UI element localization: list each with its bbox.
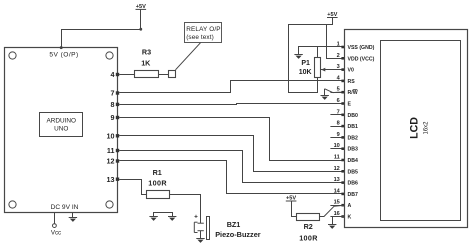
LCD pin 1 VSS (GND): [330, 46, 344, 48]
mounting hole top-left: [9, 52, 16, 59]
svg-text:6: 6: [337, 98, 340, 104]
ground (left of pair): [149, 217, 157, 221]
svg-text:A: A: [348, 203, 352, 209]
svg-text:BZ1: BZ1: [227, 220, 241, 229]
wire Arduino pin10 to LCD DB5: [119, 136, 344, 172]
svg-text:Piezo-Buzzer: Piezo-Buzzer: [215, 230, 261, 239]
svg-text:10: 10: [334, 143, 340, 149]
LCD module outline: [345, 30, 468, 228]
svg-text:1K: 1K: [141, 58, 151, 67]
svg-text:5: 5: [337, 87, 340, 93]
LCD pin 4 RS: [330, 80, 344, 82]
svg-text:2: 2: [337, 53, 340, 59]
LCD pin 6 E: [330, 103, 344, 105]
resistor R3: [135, 71, 159, 78]
svg-text:DC 9V IN: DC 9V IN: [51, 204, 79, 211]
svg-text:K: K: [348, 215, 352, 221]
potentiometer P1 body: [315, 58, 321, 78]
svg-text:11: 11: [334, 155, 340, 161]
svg-text:12: 12: [107, 157, 115, 166]
Arduino pin 9 terminal: [116, 116, 119, 119]
LCD screen inner rectangle: [381, 41, 461, 221]
svg-text:16x2: 16x2: [424, 121, 430, 135]
svg-text:11: 11: [107, 146, 115, 155]
Vcc terminal: [54, 212, 56, 223]
svg-text:+5V: +5V: [286, 195, 296, 201]
wire VSS to ground: [299, 47, 345, 56]
svg-text:+5V: +5V: [136, 4, 146, 10]
svg-text:DB1: DB1: [348, 124, 358, 130]
wire pot wiper to LCD V0: [321, 69, 344, 71]
svg-text:VSS (GND): VSS (GND): [348, 45, 375, 51]
svg-text:9: 9: [337, 132, 340, 138]
+5V supply arrow (top left): [136, 4, 147, 10]
LCD pin 16 K: [330, 216, 344, 218]
svg-text:+5V: +5V: [327, 12, 337, 18]
wire R1 to buzzer: [170, 195, 201, 224]
svg-text:15: 15: [334, 200, 340, 206]
Arduino pin 10 terminal: [116, 134, 119, 137]
+5V supply arrow (LCD): [327, 12, 338, 18]
ground at buzzer: [196, 239, 204, 243]
svg-text:3: 3: [337, 64, 340, 70]
svg-text:DB6: DB6: [348, 181, 358, 187]
+5V supply arrow (R2): [286, 195, 297, 201]
wire Arduino pin9 to LCD DB4: [119, 118, 344, 161]
LCD pin 8 DB1: [330, 126, 344, 128]
LCD pin 9 DB2: [330, 137, 344, 139]
buzzer piezo disc: [207, 217, 210, 240]
wiper arrowhead: [321, 68, 325, 72]
wire Arduino pin11 to LCD DB6: [119, 151, 344, 183]
LCD pin 2 VDD (VCC): [330, 58, 344, 60]
Arduino pin 7 terminal: [116, 91, 119, 94]
wire Arduino pin7 to LCD RS: [119, 81, 344, 93]
svg-text:R1: R1: [153, 168, 162, 177]
svg-text:V0: V0: [348, 68, 354, 74]
mounting hole bottom-right: [106, 201, 113, 208]
wire LCD R/W link: [333, 91, 338, 93]
Arduino pin 12 terminal: [116, 159, 119, 162]
Arduino pin 13 terminal: [116, 178, 119, 181]
svg-text:LCD: LCD: [409, 117, 421, 139]
ground (right of pair): [168, 217, 176, 221]
wire DC-in ground stem: [72, 212, 74, 217]
svg-text:ARDUINO: ARDUINO: [46, 118, 75, 125]
mounting hole bottom-left: [9, 201, 16, 208]
wire pot bottom loop: [288, 77, 317, 92]
svg-text:UNO: UNO: [54, 126, 68, 133]
svg-text:7: 7: [337, 109, 340, 115]
LCD pin 11 DB4: [330, 160, 344, 162]
resistor R2: [297, 214, 320, 221]
svg-text:8: 8: [111, 100, 115, 109]
wire pin13 to R1: [119, 180, 146, 195]
svg-text:100R: 100R: [148, 179, 167, 188]
svg-text:100R: 100R: [299, 234, 318, 243]
svg-text:10: 10: [107, 131, 115, 140]
svg-text:DB2: DB2: [348, 135, 358, 141]
wire VDD drop: [327, 25, 345, 59]
wire +5V to R2: [292, 201, 297, 217]
svg-text:DB3: DB3: [348, 147, 358, 153]
svg-text:12: 12: [334, 166, 340, 172]
wire pot top to VSS net: [317, 47, 319, 58]
ground at LCD VSS: [294, 55, 302, 59]
svg-text:DB5: DB5: [348, 169, 358, 175]
LCD pin 13 DB6: [330, 182, 344, 184]
svg-text:DB7: DB7: [348, 192, 358, 198]
relay callout box RELAY O/P: [185, 23, 222, 43]
ground at LCD R/W: [321, 96, 329, 100]
Arduino pin 8 terminal: [116, 103, 119, 106]
wire leader to relay callout: [176, 42, 202, 70]
svg-text:R2: R2: [304, 222, 313, 231]
wire pin4 to R3: [119, 74, 135, 76]
svg-text:13: 13: [334, 177, 340, 183]
floating ground pair bracket: [154, 213, 173, 217]
svg-text:E: E: [348, 102, 352, 108]
svg-text:7: 7: [111, 89, 115, 98]
svg-text:RELAY O/P: RELAY O/P: [186, 26, 221, 33]
mounting hole top-right: [106, 52, 113, 59]
svg-text:RS: RS: [348, 79, 356, 85]
svg-text:8: 8: [337, 121, 340, 127]
ground at DC 9V IN: [69, 218, 77, 222]
ARDUINO UNO inner box: [40, 113, 83, 137]
resistor R1: [147, 191, 170, 199]
svg-text:DB4: DB4: [348, 158, 358, 164]
wire R3 to relay terminal: [159, 74, 169, 76]
svg-text:1: 1: [337, 42, 340, 48]
wire Arduino pin8 to LCD E: [119, 104, 344, 105]
wire R2 to LCD A: [319, 205, 344, 216]
LCD pin 3 V0: [330, 69, 344, 71]
wire Arduino pin12 to LCD DB7: [119, 161, 344, 194]
Arduino pin 11 terminal: [116, 149, 119, 152]
LCD pin 12 DB5: [330, 171, 344, 173]
relay output terminal square: [169, 71, 176, 78]
buzzer BZ1 element: [194, 222, 204, 232]
wire LCD K to ground: [333, 217, 345, 225]
wire buzzer to ground: [200, 231, 202, 239]
svg-text:10K: 10K: [299, 69, 312, 76]
wire 5V O/P to +5V arrow: [62, 9, 141, 47]
R/W switch blade: [325, 89, 333, 93]
Arduino pin 4 terminal: [116, 73, 119, 76]
LCD pin 15 A: [330, 205, 344, 207]
+5V rail wire to VDD: [289, 18, 333, 94]
Arduino board outline: [5, 48, 118, 213]
svg-text:R3: R3: [142, 48, 151, 57]
svg-text:13: 13: [107, 175, 115, 184]
svg-text:(see text): (see text): [186, 34, 214, 41]
svg-text:14: 14: [334, 188, 341, 194]
ground at LCD K: [328, 225, 336, 229]
junction dot on Arduino 5V output: [60, 46, 63, 49]
svg-text:+: +: [194, 214, 198, 221]
LCD pin 5 R/W: [330, 92, 344, 94]
svg-text:P1: P1: [301, 60, 310, 67]
LCD pin 10 DB3: [330, 148, 344, 150]
LCD pin 7 DB0: [330, 114, 344, 116]
LCD pin 14 DB7: [330, 193, 344, 195]
svg-text:DB0: DB0: [348, 113, 358, 119]
svg-text:R/W: R/W: [348, 90, 358, 96]
svg-text:Vcc: Vcc: [51, 229, 61, 236]
svg-text:5V (O/P): 5V (O/P): [49, 52, 78, 59]
svg-text:9: 9: [111, 113, 115, 122]
svg-text:4: 4: [111, 70, 115, 79]
svg-text:VDD (VCC): VDD (VCC): [348, 56, 375, 62]
